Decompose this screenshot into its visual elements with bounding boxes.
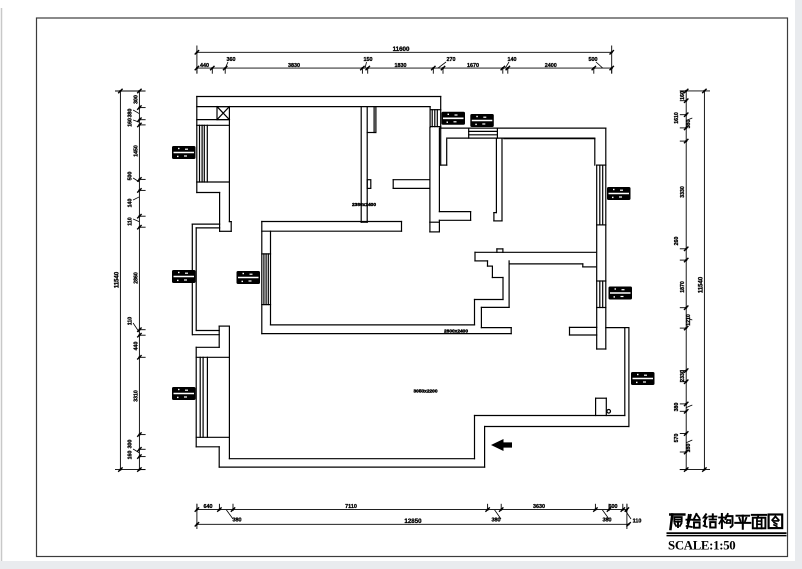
label box right middle [609,287,633,300]
column X-box top-left [217,107,229,120]
svg-text:380: 380 [492,518,501,524]
partition thick top extra [373,107,375,133]
dimension top segment line [195,66,614,74]
svg-text:SCALE:1:50: SCALE:1:50 [668,539,735,553]
svg-text:110: 110 [128,317,134,325]
label box left upper C [172,146,196,159]
bedroom3 left wall [495,138,497,213]
svg-text:260: 260 [674,237,680,246]
svg-text:140: 140 [128,199,134,208]
main wall left cap [474,252,476,261]
window left-top bay [197,124,230,126]
wall left-top outer [196,97,198,193]
svg-text:570: 570 [674,434,680,443]
kitchen mouth bottom wall [481,327,511,329]
svg-text:11540: 11540 [698,276,704,293]
outer right wall lower [624,328,626,416]
window living left [262,253,271,255]
corridor right branch wall [439,211,470,213]
living room top wall [262,221,402,223]
svg-text:380: 380 [686,120,692,129]
bedroom3 inner right [594,139,596,166]
pilaster corridor [440,128,442,165]
title underline double [667,532,787,534]
dimension bottom leader slashes [226,510,631,519]
dimension bottom segment labels [204,504,642,525]
svg-text:160: 160 [128,118,134,127]
svg-text:380: 380 [603,518,612,524]
wall lower-left bay top [196,346,219,348]
right wall upper [605,128,607,349]
kitchen jog [475,299,504,301]
entry arrow [491,439,512,451]
bottom gray band [0,561,802,569]
entry left step [474,416,476,459]
wall left step to lower bay [196,330,219,332]
svg-text:2380x2400: 2380x2400 [352,202,376,208]
window top corridor band [469,130,498,132]
svg-text:300: 300 [134,95,140,104]
svg-text:110: 110 [633,519,642,525]
living room bottom wall inner [271,324,475,326]
dimension left segment line [137,89,145,472]
svg-text:3050x2200: 3050x2200 [413,389,437,395]
dimension right segment labels [674,91,692,452]
wall right of bath to outer [606,327,625,329]
svg-text:380: 380 [233,518,242,524]
living room bottom wall outer [262,333,511,335]
dimension top overall line 11600 [195,46,614,74]
corridor wall foot [430,221,440,223]
wall top inner [197,106,430,108]
wall bay top line [197,119,230,121]
top wall right wing inner [447,137,595,139]
right wall column bottom cap [597,348,606,350]
svg-text:1450: 1450 [134,145,140,157]
bathroom inner right step [582,264,584,267]
svg-text:1870: 1870 [680,281,686,293]
dimension bottom segment line [195,504,629,512]
svg-text:440: 440 [134,342,140,351]
dimension left segment labels [128,95,140,459]
door knob circle [607,410,611,414]
svg-text:380: 380 [128,109,134,118]
main wall inner step [487,261,489,266]
dimension top segment labels [200,57,598,69]
left paper edge line [1,8,3,562]
dimension right leader slashes [686,118,692,443]
svg-text:12850: 12850 [404,518,422,525]
entry wall bottom [485,426,629,428]
wall left middle inner [195,228,197,331]
wall bottom inner [229,458,474,460]
label box top mid 1 [442,112,466,125]
wall bay inner right [228,120,230,222]
label box living window [237,271,261,284]
svg-text:11600: 11600 [393,46,410,53]
dimension right segment line [680,89,689,472]
window bedroom2 right [430,109,441,111]
living room left wall inner [270,231,272,325]
dimension right overall line [680,89,710,472]
label box top mid 2 [470,114,494,127]
svg-text:150: 150 [364,57,373,63]
svg-text:180: 180 [686,444,692,453]
partition bottom cap [361,221,367,223]
entry wall top [475,415,625,417]
partition bedroom1/2 right line [366,107,368,223]
dimension top leader slashes [225,62,603,68]
window right lower [597,280,606,282]
partition notch [367,180,371,189]
svg-text:440: 440 [200,63,209,69]
svg-text:600: 600 [609,504,618,510]
svg-text:640: 640 [204,504,213,510]
wall lower-left bay bottom [196,446,219,448]
svg-text:1830: 1830 [395,63,407,69]
main wall bath top outer [475,251,596,253]
top wall right wing outer [441,127,606,129]
wall step below bay [219,193,221,232]
entry door bump [595,398,597,415]
main wall bump [496,249,498,252]
bedroom2 bottom wall [393,179,430,181]
svg-text:3830: 3830 [288,63,300,69]
kitchen left wall [502,278,504,300]
label box right upper [607,187,631,200]
svg-text:2400: 2400 [545,63,557,69]
title text (drawn glyphs) [670,514,782,529]
svg-text:3630: 3630 [533,504,545,510]
bathroom bottom T wall [570,326,597,328]
svg-text:2860: 2860 [134,272,140,284]
wall left middle outer [191,224,193,335]
window lower-left bay [196,356,229,358]
dimension left leader slashes [133,110,139,453]
svg-text:11540: 11540 [114,271,120,288]
dimension bottom overall line 12850 [195,504,631,529]
wall top outer [197,96,441,98]
label box left middle C [172,270,196,283]
svg-text:1610: 1610 [674,112,680,124]
svg-text:2800x2400: 2800x2400 [444,329,468,335]
dimension left overall line 11540 [115,89,145,472]
living room left wall outer [261,222,263,334]
wall bay bottom [197,192,220,194]
svg-text:300: 300 [128,440,134,449]
corridor left wall [429,127,431,222]
right gray band [795,0,802,569]
bathroom inner top [509,263,583,265]
svg-text:270: 270 [447,57,456,63]
svg-text:500: 500 [128,172,134,181]
bedroom3 inner top [504,138,595,140]
bedroom2 right wall top verticals [429,107,431,128]
window right upper [597,164,606,166]
main wall inner [475,260,488,262]
svg-text:110: 110 [128,217,134,225]
svg-text:380: 380 [674,403,680,412]
svg-text:160: 160 [128,451,134,460]
svg-text:7110: 7110 [345,504,357,510]
partition bedroom1/2 left line [360,107,362,223]
svg-text:1670: 1670 [467,63,479,69]
label box right lower [631,372,655,385]
svg-text:160: 160 [680,91,686,100]
svg-text:3330: 3330 [680,186,686,198]
label box left lower C [172,387,196,400]
wall bottom outer [219,466,484,468]
svg-text:2330: 2330 [680,370,686,382]
svg-text:3310: 3310 [134,390,140,402]
